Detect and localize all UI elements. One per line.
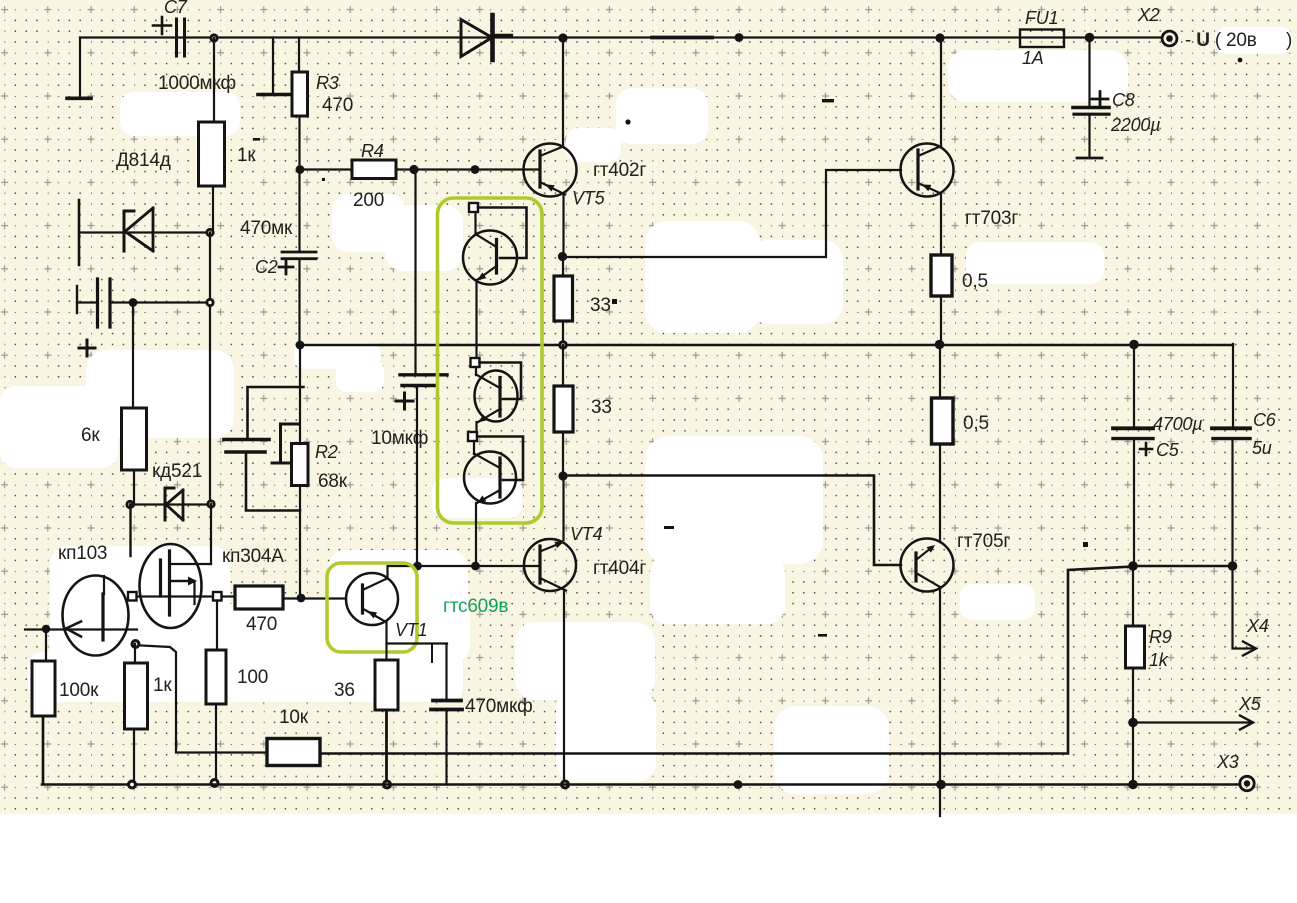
pin square 1 — [469, 203, 478, 212]
pin square A — [128, 592, 137, 601]
resistor 100k — [32, 661, 55, 716]
capacitor input left — [76, 286, 78, 313]
svg-text:C5: C5 — [1156, 440, 1180, 460]
transistor VT5 gt402g — [524, 144, 577, 197]
pin square B — [213, 592, 222, 601]
zener diode D814d — [79, 231, 210, 233]
svg-text:гт404г: гт404г — [593, 558, 646, 579]
wire to kp304A drain — [210, 504, 212, 564]
wire VT4 emitter — [563, 591, 565, 785]
capacitor C2 — [282, 252, 316, 259]
svg-text:1к: 1к — [153, 675, 172, 696]
wire rail to R2 — [299, 345, 301, 444]
svg-text:100: 100 — [237, 667, 268, 688]
svg-text:0,5: 0,5 — [963, 413, 989, 434]
svg-text:C7: C7 — [164, 0, 188, 17]
svg-text:VT4: VT4 — [570, 524, 603, 544]
junction mid rail left end — [296, 341, 305, 350]
svg-text:4700µ: 4700µ — [1153, 414, 1202, 434]
svg-text:гтс609в: гтс609в — [443, 596, 508, 617]
svg-text:33: 33 — [591, 397, 612, 418]
resistor 470 horizontal — [222, 595, 236, 597]
wire gate node to 100k — [45, 629, 47, 661]
resistor 6k — [122, 408, 147, 470]
wire R4 to VT5 base — [414, 168, 540, 170]
wire gt703g emitter — [940, 194, 942, 256]
svg-text:33: 33 — [590, 295, 611, 316]
transistor gt703g — [901, 144, 954, 197]
svg-text:36: 36 — [334, 680, 355, 701]
capacitor C8 — [1088, 38, 1090, 107]
wire node row 566 — [1133, 565, 1233, 567]
wire to gt703g base — [563, 170, 902, 257]
junction C7 right — [209, 33, 218, 42]
svg-text:10мкф: 10мкф — [371, 428, 428, 449]
wire chain square1 to Q1 — [474, 212, 476, 234]
junction chain bottom node — [558, 471, 567, 480]
junction mid rail 33 — [558, 340, 568, 350]
svg-text:100к: 100к — [59, 680, 99, 701]
resistor R4 — [300, 168, 352, 170]
arrow X5 — [1133, 721, 1250, 723]
transistor VT4 gt404g — [524, 539, 576, 591]
junction kp103 source node — [131, 639, 141, 649]
terminal X3 — [1240, 776, 1254, 790]
svg-text:1к: 1к — [237, 145, 256, 166]
junction C8 tap — [1085, 33, 1095, 43]
wire chain Q1 to square2 — [475, 280, 477, 358]
resistor 100 — [206, 650, 226, 704]
wire VT5 collector — [562, 38, 564, 148]
junction stray top — [735, 33, 744, 42]
transistor gt705g — [901, 539, 954, 592]
junction stray bottom — [734, 780, 743, 789]
junction R3-R4 — [296, 165, 305, 174]
arrow X4 — [1233, 566, 1254, 649]
wire chain square2 to Q2 — [475, 367, 477, 375]
composite transistor Q3 — [477, 437, 523, 481]
composite transistor Q1 — [478, 208, 527, 259]
wire feedback to 10k — [141, 646, 267, 753]
wire 6k column — [132, 303, 134, 409]
diode top rail — [461, 20, 492, 57]
wire gt703g collector — [940, 38, 942, 148]
capacitor C7 — [175, 19, 178, 56]
wire gate row — [136, 595, 213, 597]
junction chain top — [471, 165, 480, 174]
junction VT5 emitter node — [558, 252, 567, 261]
wire left column — [209, 233, 211, 504]
resistor R2 — [292, 444, 309, 486]
wire C2 to mid rail — [298, 259, 300, 345]
svg-text:гт402г: гт402г — [593, 160, 646, 181]
junction rail VT4 — [560, 780, 570, 790]
junction C5 top — [1129, 340, 1139, 350]
svg-text:C8: C8 — [1112, 90, 1135, 110]
svg-text:): ) — [1286, 30, 1292, 51]
resistor 36 — [375, 660, 398, 710]
svg-text:X2: X2 — [1137, 5, 1160, 25]
junction rail 36 — [382, 780, 392, 790]
transistor VT1 gts609v — [346, 573, 398, 625]
green box VT1 — [327, 563, 417, 652]
svg-text:R3: R3 — [316, 73, 339, 93]
ground stub — [272, 38, 274, 94]
pin square 3 — [468, 432, 477, 441]
resistor 33 lower — [562, 345, 564, 386]
svg-text:1k: 1k — [1149, 650, 1169, 670]
wire chain Q3 down — [475, 503, 477, 566]
svg-text:470: 470 — [322, 95, 353, 116]
resistor 0,5 lower — [939, 345, 941, 399]
green box composite DA — [438, 198, 543, 523]
svg-text:гт705г: гт705г — [957, 531, 1010, 552]
junction rail 1k — [127, 780, 137, 790]
capacitor 470uF — [387, 644, 448, 700]
mosfet kp304A — [140, 544, 202, 628]
svg-text:0,5: 0,5 — [962, 271, 988, 292]
diode kd521 — [130, 503, 211, 505]
svg-text:200: 200 — [353, 190, 384, 211]
capacitor C5 — [1133, 344, 1135, 427]
resistor 1k top — [213, 38, 215, 122]
wire VT4 base row — [388, 565, 540, 567]
svg-text:5u: 5u — [1252, 438, 1272, 458]
transistor kp103 — [63, 576, 129, 656]
wire chain Q2 to square3 — [475, 422, 477, 432]
svg-text:1А: 1А — [1022, 48, 1044, 68]
junction rail 100 — [210, 778, 220, 788]
wire VT1 collector — [386, 566, 388, 579]
wire square B down — [216, 601, 218, 651]
svg-text:470мкф: 470мкф — [465, 696, 533, 717]
svg-text:C6: C6 — [1253, 410, 1277, 430]
wire 10k to right riser — [320, 567, 1133, 754]
capacitor across R2 — [248, 387, 304, 439]
junction rail 705 — [936, 780, 946, 790]
junction R4 output — [409, 165, 418, 174]
svg-text:X5: X5 — [1238, 694, 1262, 714]
wire VT5 emitter — [562, 195, 564, 257]
resistor 10k — [267, 739, 320, 766]
capacitor C6 — [1232, 344, 1234, 427]
junction zener right — [205, 228, 214, 237]
junction kd521 left — [125, 500, 134, 509]
junction top rail VT5 — [558, 33, 567, 42]
resistor R9 — [1132, 566, 1134, 626]
junction 6k node — [129, 298, 138, 307]
junction top rail 703 — [935, 33, 944, 42]
svg-text:FU1: FU1 — [1025, 8, 1058, 28]
wire node to VT4 collector — [562, 476, 564, 540]
wire R2 to VT1 base node — [299, 486, 301, 599]
resistor 33 upper — [562, 257, 564, 277]
wire 10uF branch upper — [414, 170, 416, 375]
svg-text:470: 470 — [246, 614, 277, 635]
wire mid rail — [300, 344, 1233, 346]
svg-text:- U ( 20в: - U ( 20в — [1185, 30, 1257, 51]
svg-text:X4: X4 — [1246, 616, 1269, 636]
svg-text:2200µ: 2200µ — [1110, 115, 1160, 135]
fuse FU1 — [1020, 30, 1064, 48]
capacitor 10uF — [400, 373, 447, 376]
svg-text:кп304А: кп304А — [222, 546, 284, 567]
svg-text:C2: C2 — [255, 257, 278, 277]
wire chain square3 to Q3 — [473, 441, 475, 454]
junction 10uF bottom — [413, 562, 422, 571]
wire column to C2 — [298, 170, 300, 253]
svg-text:6к: 6к — [81, 425, 100, 446]
wire source node down — [134, 644, 136, 663]
svg-text:R9: R9 — [1149, 627, 1172, 647]
svg-text:1000мкф: 1000мкф — [158, 73, 236, 94]
ground top-left — [79, 38, 81, 98]
svg-text:R4: R4 — [361, 141, 384, 161]
svg-text:Д814д: Д814д — [116, 150, 171, 171]
svg-text:VT5: VT5 — [572, 188, 606, 208]
resistor R3 — [298, 38, 300, 73]
svg-text:10к: 10к — [279, 707, 309, 728]
junction node row left — [1128, 561, 1138, 571]
svg-text:VT1: VT1 — [395, 620, 427, 640]
junction X5 tap — [1128, 718, 1138, 728]
resistor 1k bottom — [125, 663, 148, 729]
wire 10uF branch lower — [416, 386, 418, 567]
resistor 0,5 upper — [931, 255, 952, 296]
svg-text:гт703г: гт703г — [965, 208, 1018, 229]
svg-text:R2: R2 — [315, 442, 338, 462]
bracket overlay near R2 — [272, 424, 298, 463]
svg-text:68к: 68к — [318, 471, 348, 492]
junction chain at VT4 base row — [471, 562, 480, 571]
junction kd521 right — [206, 499, 215, 508]
junction VT1 base node — [297, 594, 306, 603]
wire bottom ground rail — [42, 716, 1240, 785]
svg-text:X3: X3 — [1216, 752, 1239, 772]
wire VT1 emitter — [385, 622, 387, 660]
wire top rail thick segment — [652, 36, 712, 40]
svg-text:кд521: кд521 — [152, 461, 202, 482]
composite transistor Q2 — [480, 363, 522, 400]
wire gt705g emitter — [939, 587, 941, 816]
svg-text:470мк: 470мк — [240, 218, 293, 239]
stray marks — [253, 58, 1242, 637]
junction node row right — [1228, 561, 1238, 571]
junction mid rail right — [935, 340, 945, 350]
wire to gt705g base — [563, 476, 901, 566]
terminal X2 — [1162, 31, 1177, 46]
svg-text:кп103: кп103 — [58, 543, 107, 564]
pin square 2 — [471, 358, 480, 367]
wire top supply rail — [80, 36, 1160, 38]
junction rail R9 — [1128, 780, 1138, 790]
